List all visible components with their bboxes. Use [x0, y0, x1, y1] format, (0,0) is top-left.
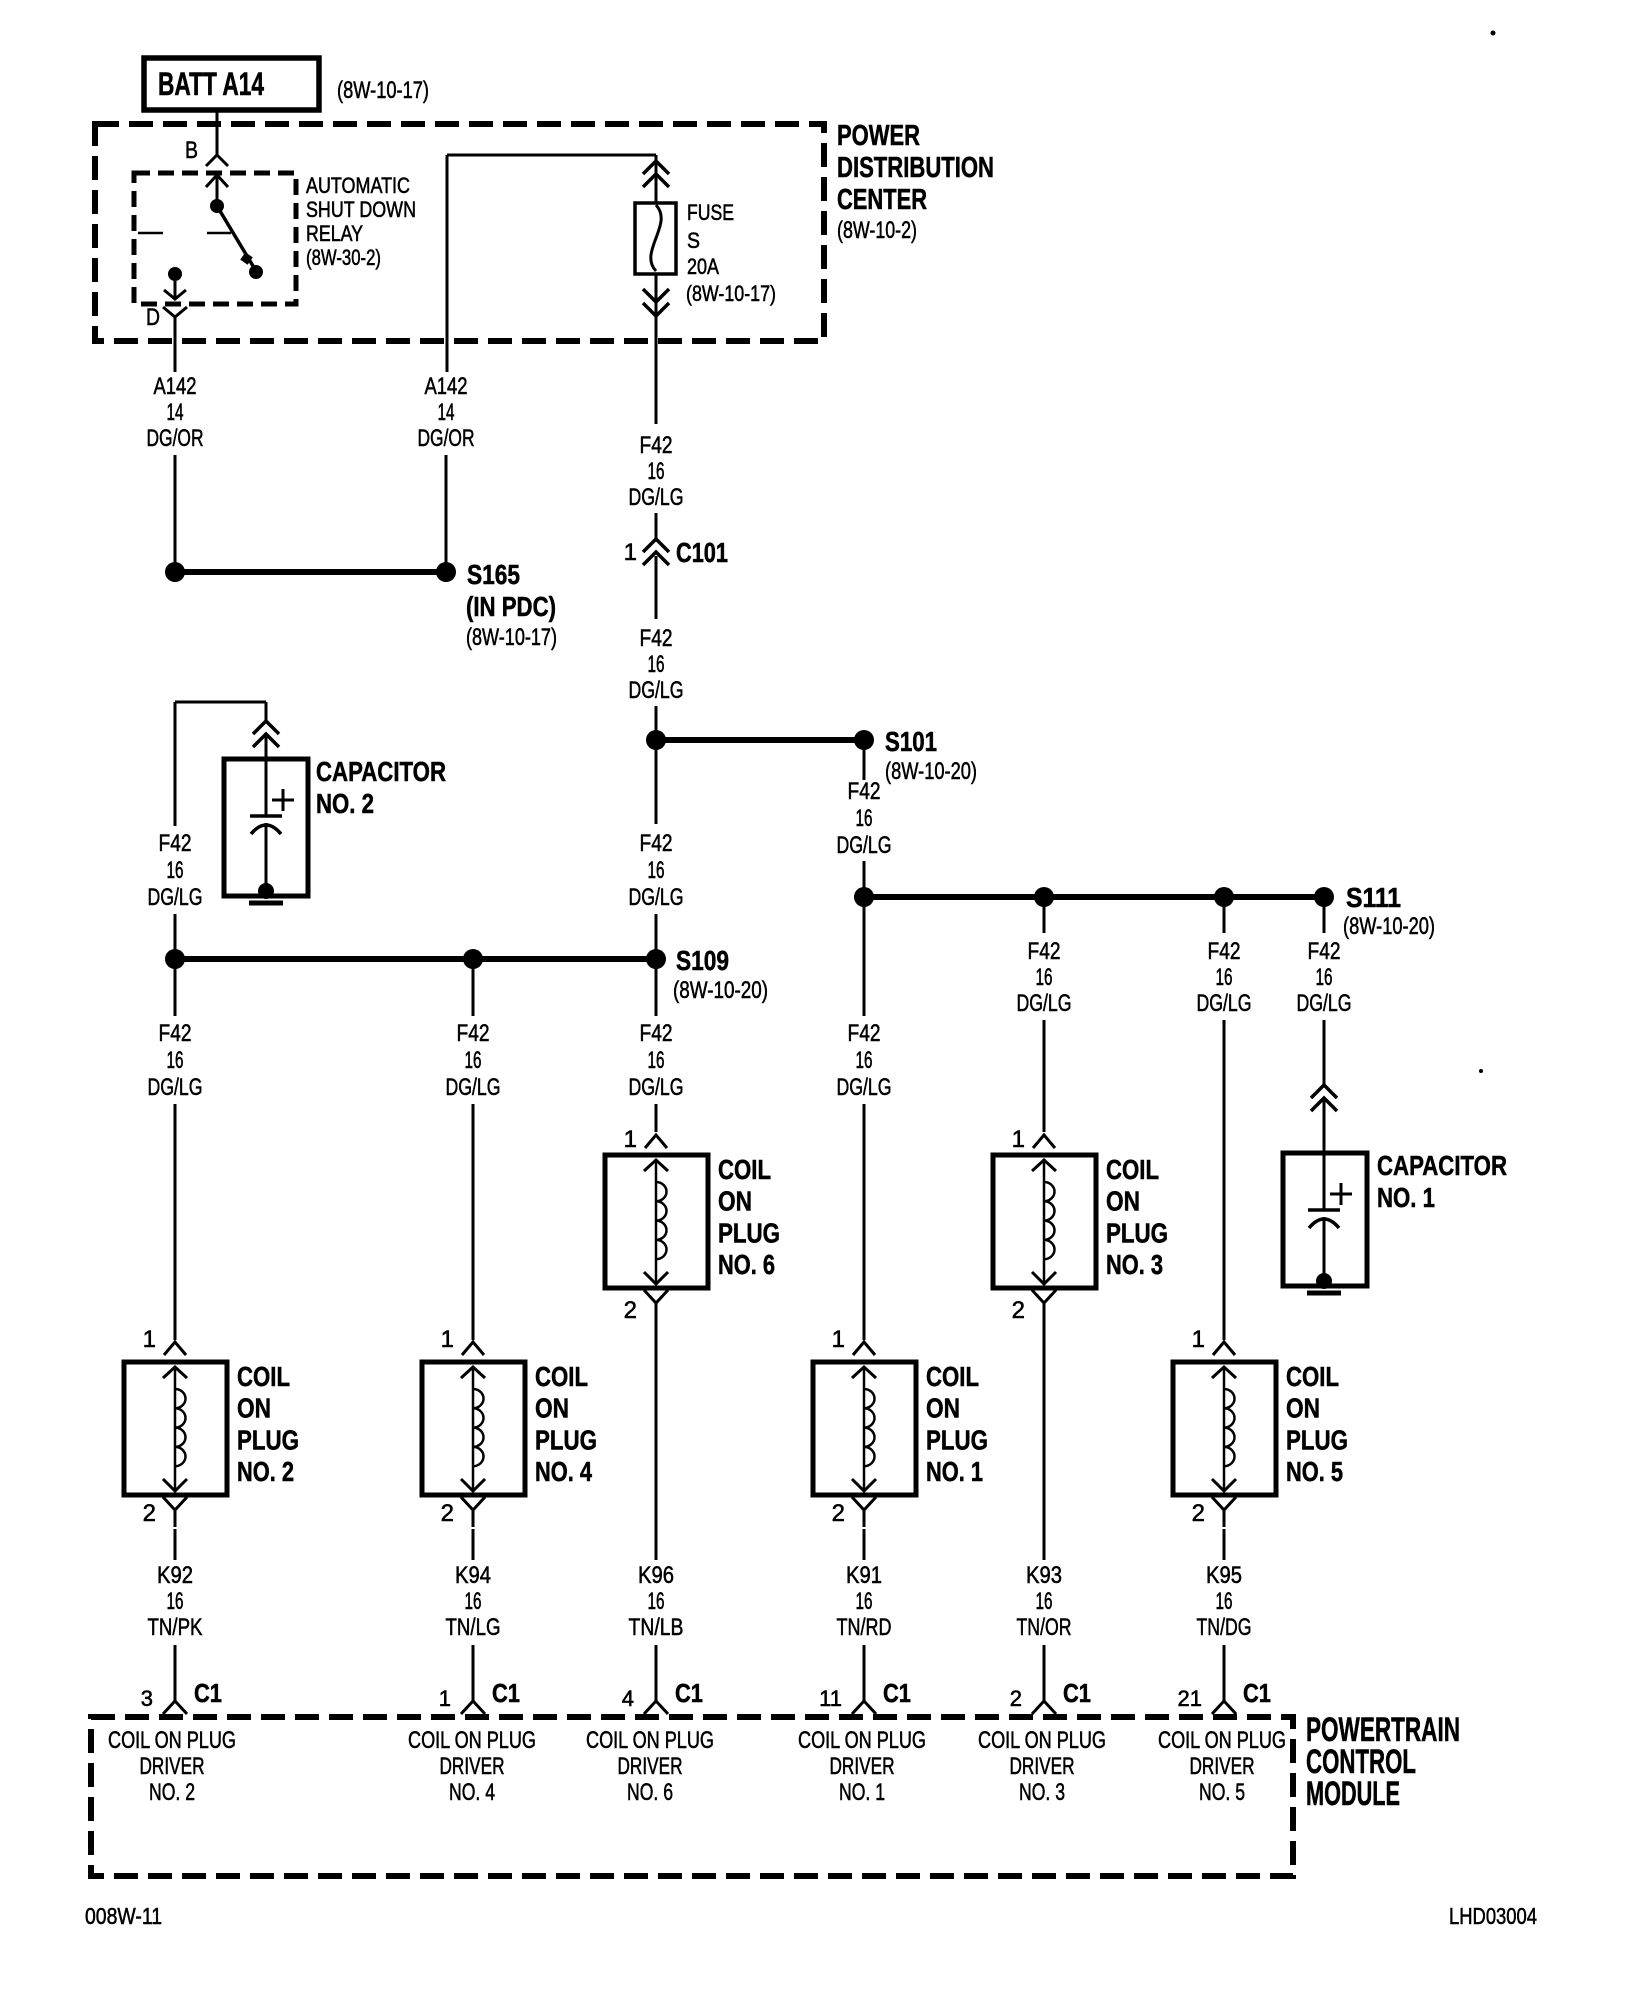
svg-text:MODULE: MODULE [1306, 1775, 1400, 1813]
svg-text:PLUG: PLUG [718, 1217, 780, 1248]
svg-text:16: 16 [856, 805, 873, 832]
svg-text:S101: S101 [885, 726, 937, 757]
svg-text:(8W-10-20): (8W-10-20) [673, 977, 768, 1004]
svg-text:COIL ON PLUG: COIL ON PLUG [108, 1727, 236, 1754]
svg-text:SHUT DOWN: SHUT DOWN [306, 197, 416, 222]
svg-text:1: 1 [1012, 1126, 1025, 1153]
svg-text:S: S [687, 228, 700, 253]
svg-text:16: 16 [856, 1588, 873, 1615]
svg-text:NO. 1: NO. 1 [926, 1456, 983, 1487]
svg-text:2: 2 [143, 1500, 156, 1527]
svg-text:DG/LG: DG/LG [837, 1074, 892, 1101]
svg-text:PLUG: PLUG [926, 1424, 988, 1455]
svg-text:1: 1 [832, 1326, 845, 1353]
svg-text:DRIVER: DRIVER [1010, 1753, 1075, 1780]
svg-text:A142: A142 [154, 373, 197, 400]
svg-text:CAPACITOR: CAPACITOR [316, 756, 446, 787]
svg-text:C1: C1 [492, 1678, 520, 1708]
svg-text:2: 2 [441, 1500, 454, 1527]
svg-text:(8W-10-17): (8W-10-17) [337, 77, 429, 104]
svg-text:S109: S109 [676, 945, 729, 976]
svg-text:COIL ON PLUG: COIL ON PLUG [798, 1727, 926, 1754]
svg-text:TN/PK: TN/PK [148, 1614, 203, 1641]
svg-text:PLUG: PLUG [1106, 1217, 1168, 1248]
svg-text:DG/OR: DG/OR [147, 425, 204, 452]
svg-text:C1: C1 [1243, 1678, 1271, 1708]
svg-text:K91: K91 [846, 1562, 882, 1589]
svg-text:NO. 4: NO. 4 [535, 1456, 592, 1487]
svg-text:COIL: COIL [237, 1361, 290, 1392]
svg-text:NO. 1: NO. 1 [1377, 1182, 1435, 1213]
svg-text:1: 1 [441, 1326, 454, 1353]
svg-text:16: 16 [167, 857, 184, 884]
svg-text:16: 16 [1216, 964, 1233, 991]
svg-text:AUTOMATIC: AUTOMATIC [306, 173, 410, 198]
svg-text:COIL: COIL [926, 1361, 979, 1392]
svg-text:C1: C1 [675, 1678, 703, 1708]
svg-text:DG/LG: DG/LG [446, 1074, 501, 1101]
svg-text:16: 16 [1036, 964, 1053, 991]
svg-text:COIL: COIL [718, 1154, 771, 1185]
svg-text:COIL: COIL [535, 1361, 588, 1392]
svg-text:DG/LG: DG/LG [1197, 990, 1252, 1017]
svg-text:(8W-10-17): (8W-10-17) [466, 624, 557, 651]
svg-text:S111: S111 [1346, 882, 1401, 913]
svg-text:(8W-10-20): (8W-10-20) [885, 758, 977, 785]
svg-text:D: D [146, 304, 160, 331]
svg-text:3: 3 [141, 1686, 153, 1711]
svg-text:CAPACITOR: CAPACITOR [1377, 1150, 1507, 1181]
svg-text:(8W-30-2): (8W-30-2) [306, 245, 381, 270]
svg-text:DG/LG: DG/LG [629, 677, 684, 704]
svg-text:COIL: COIL [1106, 1154, 1159, 1185]
svg-text:ON: ON [1106, 1186, 1140, 1217]
svg-text:DG/LG: DG/LG [148, 1074, 203, 1101]
svg-text:DRIVER: DRIVER [140, 1753, 205, 1780]
svg-text:NO. 5: NO. 5 [1286, 1456, 1343, 1487]
svg-text:C101: C101 [676, 537, 728, 568]
svg-text:C1: C1 [883, 1678, 911, 1708]
svg-text:DG/OR: DG/OR [418, 425, 475, 452]
svg-text:16: 16 [648, 651, 665, 678]
svg-text:F42: F42 [640, 830, 673, 857]
svg-text:TN/DG: TN/DG [1197, 1614, 1252, 1641]
svg-text:F42: F42 [1308, 938, 1341, 965]
svg-text:1: 1 [624, 1126, 637, 1153]
svg-text:DRIVER: DRIVER [1190, 1753, 1255, 1780]
svg-text:1: 1 [439, 1686, 451, 1711]
svg-text:DG/LG: DG/LG [1017, 990, 1072, 1017]
svg-text:DISTRIBUTION: DISTRIBUTION [837, 152, 994, 184]
svg-text:DG/LG: DG/LG [148, 884, 203, 911]
svg-text:(8W-10-2): (8W-10-2) [837, 217, 917, 244]
svg-text:4: 4 [622, 1686, 634, 1711]
svg-text:F42: F42 [159, 830, 192, 857]
svg-text:K92: K92 [157, 1562, 193, 1589]
svg-text:C1: C1 [1063, 1678, 1091, 1708]
svg-text:S165: S165 [467, 559, 520, 590]
svg-text:PLUG: PLUG [1286, 1424, 1348, 1455]
svg-text:2: 2 [1012, 1297, 1025, 1324]
svg-text:NO. 1: NO. 1 [839, 1779, 885, 1806]
svg-text:COIL: COIL [1286, 1361, 1339, 1392]
svg-text:2: 2 [1010, 1686, 1022, 1711]
svg-text:16: 16 [167, 1047, 184, 1074]
svg-text:008W-11: 008W-11 [85, 1903, 162, 1929]
svg-text:B: B [185, 137, 198, 164]
svg-text:21: 21 [1178, 1686, 1202, 1711]
svg-text:K94: K94 [455, 1562, 491, 1589]
svg-text:TN/LB: TN/LB [629, 1614, 684, 1641]
svg-text:14: 14 [438, 399, 455, 426]
svg-text:NO. 2: NO. 2 [237, 1456, 294, 1487]
svg-text:F42: F42 [848, 1020, 881, 1047]
svg-text:BATT A14: BATT A14 [158, 66, 264, 102]
svg-text:NO. 5: NO. 5 [1199, 1779, 1245, 1806]
svg-text:F42: F42 [640, 625, 673, 652]
svg-text:16: 16 [1316, 964, 1333, 991]
svg-text:TN/RD: TN/RD [837, 1614, 892, 1641]
svg-text:F42: F42 [159, 1020, 192, 1047]
svg-text:(8W-10-17): (8W-10-17) [686, 281, 776, 306]
svg-text:CENTER: CENTER [837, 184, 927, 216]
svg-text:DG/LG: DG/LG [629, 484, 684, 511]
svg-text:PLUG: PLUG [535, 1424, 597, 1455]
svg-text:DG/LG: DG/LG [629, 884, 684, 911]
svg-text:(IN PDC): (IN PDC) [466, 591, 556, 622]
svg-text:1: 1 [143, 1326, 156, 1353]
svg-text:DG/LG: DG/LG [629, 1074, 684, 1101]
svg-text:NO. 6: NO. 6 [627, 1779, 673, 1806]
svg-text:NO. 4: NO. 4 [449, 1779, 495, 1806]
svg-text:16: 16 [648, 1588, 665, 1615]
svg-text:TN/LG: TN/LG [446, 1614, 501, 1641]
svg-text:TN/OR: TN/OR [1017, 1614, 1072, 1641]
svg-text:1: 1 [1192, 1326, 1205, 1353]
svg-text:DRIVER: DRIVER [830, 1753, 895, 1780]
svg-text:16: 16 [167, 1588, 184, 1615]
svg-text:K95: K95 [1206, 1562, 1242, 1589]
svg-text:COIL ON PLUG: COIL ON PLUG [408, 1727, 536, 1754]
svg-text:DG/LG: DG/LG [837, 832, 892, 859]
svg-text:DRIVER: DRIVER [618, 1753, 683, 1780]
svg-text:F42: F42 [640, 432, 673, 459]
svg-text:LHD03004: LHD03004 [1449, 1903, 1537, 1929]
svg-text:POWER: POWER [837, 120, 920, 152]
svg-text:(8W-10-20): (8W-10-20) [1343, 913, 1435, 940]
svg-text:16: 16 [648, 1047, 665, 1074]
svg-text:2: 2 [1192, 1500, 1205, 1527]
svg-text:PLUG: PLUG [237, 1424, 299, 1455]
svg-text:COIL ON PLUG: COIL ON PLUG [1158, 1727, 1286, 1754]
svg-text:16: 16 [856, 1047, 873, 1074]
svg-text:2: 2 [624, 1297, 637, 1324]
svg-text:ON: ON [237, 1393, 271, 1424]
svg-text:1: 1 [624, 539, 637, 566]
svg-text:DRIVER: DRIVER [440, 1753, 505, 1780]
svg-text:16: 16 [648, 857, 665, 884]
svg-text:ON: ON [535, 1393, 569, 1424]
svg-text:14: 14 [167, 399, 184, 426]
svg-text:NO. 3: NO. 3 [1019, 1779, 1065, 1806]
svg-text:DG/LG: DG/LG [1297, 990, 1352, 1017]
svg-text:K96: K96 [638, 1562, 674, 1589]
svg-text:RELAY: RELAY [306, 221, 363, 246]
svg-text:FUSE: FUSE [687, 200, 734, 225]
svg-text:16: 16 [1216, 1588, 1233, 1615]
svg-text:16: 16 [1036, 1588, 1053, 1615]
svg-text:NO. 2: NO. 2 [316, 788, 374, 819]
svg-text:ON: ON [926, 1393, 960, 1424]
svg-text:F42: F42 [1208, 938, 1241, 965]
svg-text:F42: F42 [640, 1020, 673, 1047]
svg-text:K93: K93 [1026, 1562, 1062, 1589]
svg-text:NO. 3: NO. 3 [1106, 1249, 1163, 1280]
svg-text:20A: 20A [687, 254, 719, 279]
svg-text:F42: F42 [848, 778, 881, 805]
svg-text:ON: ON [1286, 1393, 1320, 1424]
svg-text:ON: ON [718, 1186, 752, 1217]
svg-text:NO. 2: NO. 2 [149, 1779, 195, 1806]
svg-text:16: 16 [465, 1588, 482, 1615]
svg-text:F42: F42 [457, 1020, 490, 1047]
svg-text:NO. 6: NO. 6 [718, 1249, 775, 1280]
svg-text:A142: A142 [425, 373, 468, 400]
svg-text:COIL ON PLUG: COIL ON PLUG [586, 1727, 714, 1754]
svg-text:16: 16 [465, 1047, 482, 1074]
svg-text:11: 11 [819, 1686, 842, 1711]
svg-text:16: 16 [648, 458, 665, 485]
svg-text:COIL ON PLUG: COIL ON PLUG [978, 1727, 1106, 1754]
svg-text:C1: C1 [194, 1678, 222, 1708]
svg-text:2: 2 [832, 1500, 845, 1527]
svg-text:F42: F42 [1028, 938, 1061, 965]
